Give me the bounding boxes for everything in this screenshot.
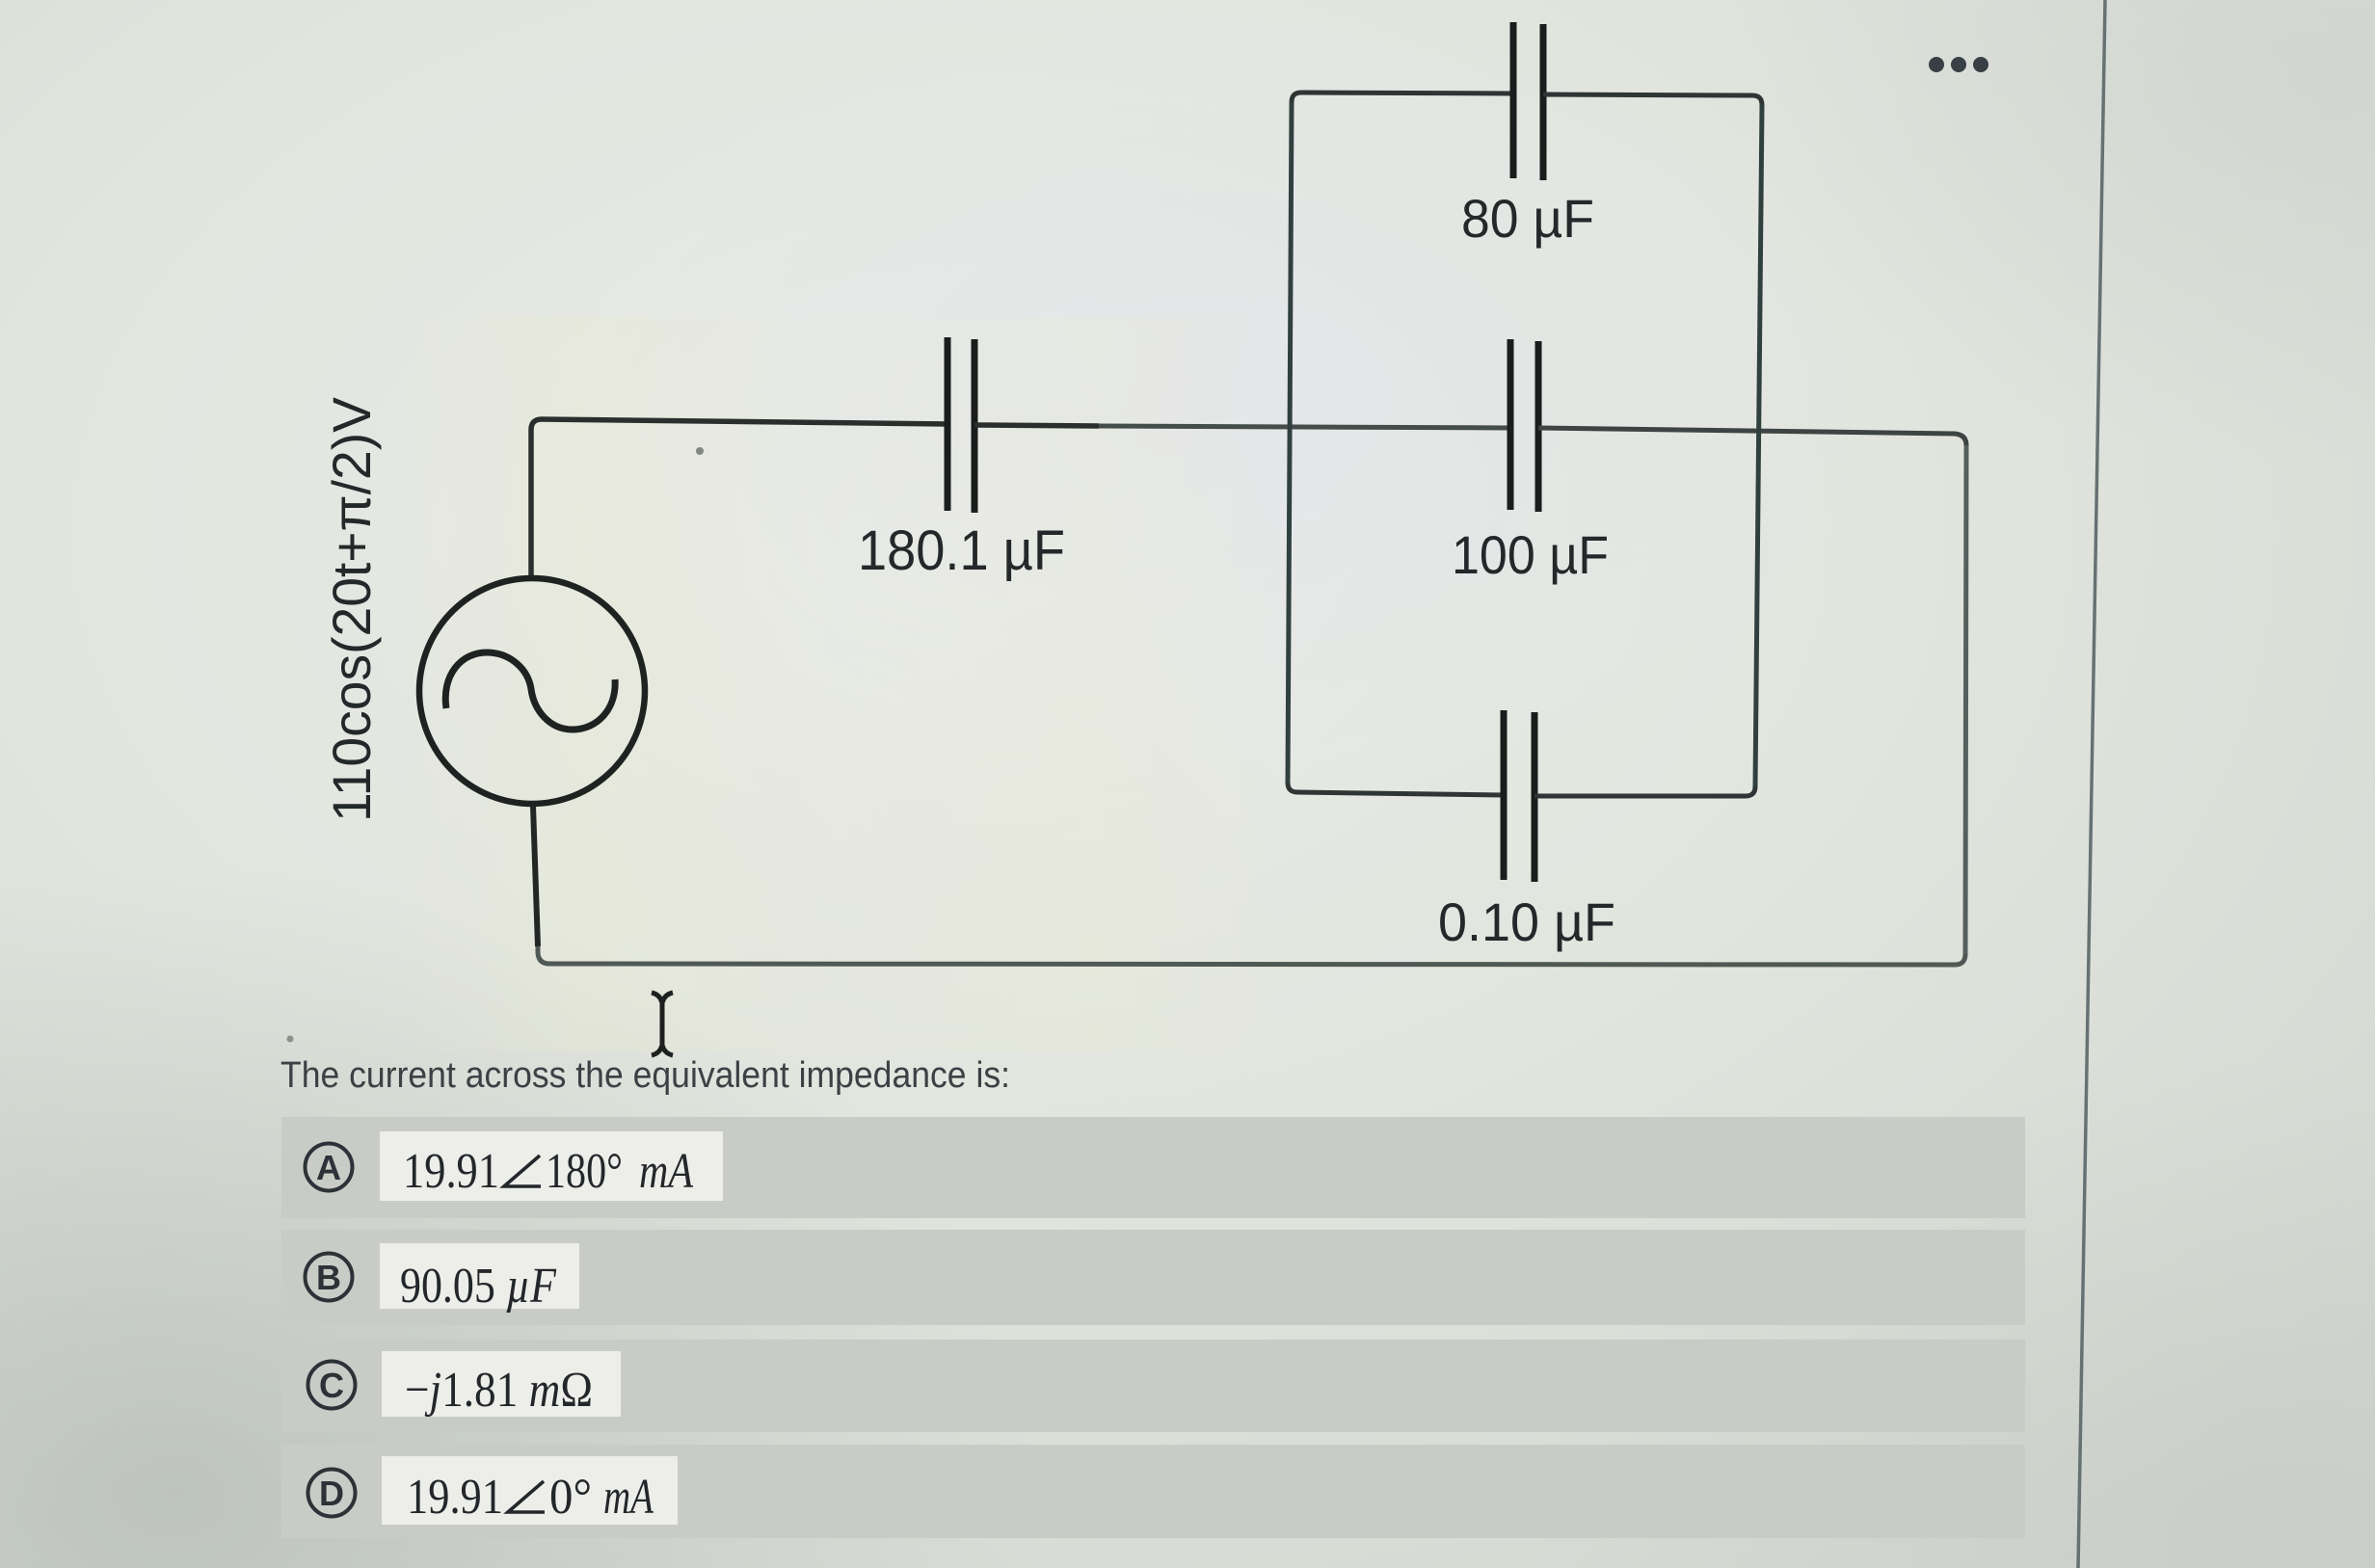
- dust speck near top wire: [696, 447, 704, 455]
- capacitor C1 180.1 µF left plate: [945, 337, 951, 511]
- node rect A: bottom edge right part: [1534, 786, 1755, 796]
- capacitor C4 0.10 µF right plate: [1532, 712, 1538, 882]
- svg-text:0.10 µF: 0.10 µF: [1438, 891, 1615, 952]
- svg-text:180°: 180°: [546, 1144, 623, 1199]
- node rect A: bottom edge left part: [1288, 783, 1504, 795]
- capacitor C2 80 µF left plate: [1510, 22, 1517, 178]
- svg-text:mA: mA: [603, 1470, 654, 1525]
- node rect A: top edge right part: [1543, 94, 1762, 105]
- dust speck lower left: [287, 1036, 294, 1043]
- capacitor C2 80 µF right plate: [1540, 24, 1547, 180]
- wire: top main wire right segment from C3 to outer right edge with corner: [1538, 428, 1966, 445]
- option B circle: [306, 1254, 353, 1301]
- node rect A: top edge left part: [1292, 93, 1513, 102]
- svg-text:110cos(20t+π/2)V: 110cos(20t+π/2)V: [321, 396, 382, 822]
- svg-text:D: D: [319, 1474, 344, 1513]
- svg-text:180.1 µF: 180.1 µF: [858, 519, 1065, 582]
- option row D band: [281, 1445, 2025, 1538]
- wire: top main wire left segment from source corner to C1: [531, 419, 947, 578]
- menu dots: [1929, 57, 1988, 72]
- svg-text:80 µF: 80 µF: [1461, 188, 1594, 249]
- option row C band: [281, 1340, 2025, 1432]
- capacitor C3 100 µF left plate: [1508, 339, 1514, 510]
- svg-text:A: A: [316, 1148, 341, 1187]
- svg-text:mA: mA: [639, 1144, 693, 1199]
- wire rect A right edge: [1755, 105, 1762, 786]
- option row D formula backdrop: [382, 1456, 678, 1525]
- ac source V1 circle: [419, 578, 645, 804]
- wire: top main wire middle segment lighter part to C3: [1099, 426, 1510, 428]
- svg-text:100 µF: 100 µF: [1452, 524, 1609, 585]
- wire: source bottom lead: [533, 806, 538, 946]
- wire: top main wire middle segment from C1 dark part: [974, 425, 1099, 426]
- svg-text:0°: 0°: [549, 1470, 592, 1525]
- option row B formula backdrop: [380, 1243, 579, 1309]
- svg-text:19.91: 19.91: [407, 1470, 503, 1525]
- svg-text:19.91: 19.91: [403, 1144, 499, 1199]
- screen seam vertical line: [2078, 0, 2105, 1568]
- option C circle: [308, 1362, 356, 1409]
- ac source V1 sine symbol: [445, 652, 615, 730]
- svg-text:C: C: [319, 1366, 344, 1405]
- svg-text:B: B: [316, 1258, 341, 1297]
- option D circle: [308, 1470, 356, 1517]
- option row C formula backdrop: [382, 1351, 621, 1417]
- capacitor C4 0.10 µF left plate: [1501, 710, 1508, 880]
- capacitor C1 180.1 µF right plate: [972, 339, 978, 513]
- wire: outer loop right edge: [1965, 445, 1966, 954]
- option A formula text: [403, 1144, 693, 1199]
- option A circle: [306, 1144, 353, 1191]
- svg-text:−j1.81 mΩ: −j1.81 mΩ: [405, 1363, 593, 1418]
- svg-text:The current across the equival: The current across the equivalent impeda…: [280, 1055, 1010, 1096]
- wire rect A left edge: [1288, 102, 1292, 783]
- option D formula text: [407, 1470, 654, 1525]
- capacitor C3 100 µF right plate: [1535, 341, 1542, 512]
- option row B band: [281, 1230, 2025, 1325]
- svg-text:90.05 µF: 90.05 µF: [400, 1259, 557, 1314]
- option row A band: [281, 1117, 2025, 1218]
- text cursor I-beam: [652, 993, 673, 1055]
- option row A formula backdrop: [380, 1131, 723, 1201]
- wire: outer loop bottom wire: [538, 946, 1965, 965]
